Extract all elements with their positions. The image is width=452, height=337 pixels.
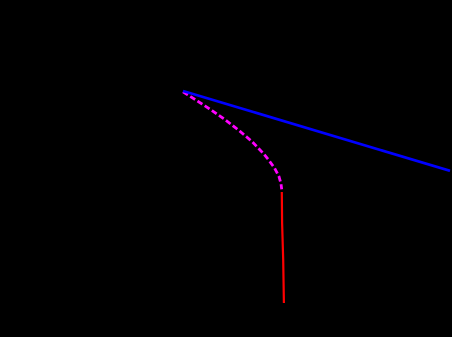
magenta dashed curve — [183, 92, 282, 190]
red vertical line — [282, 192, 284, 303]
blue straight line — [183, 91, 450, 171]
